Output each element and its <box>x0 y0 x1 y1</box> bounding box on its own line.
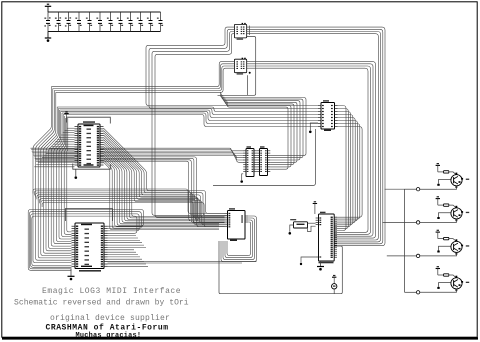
wire bottom feedback run <box>219 241 342 294</box>
IC U1 (MIDI processor DIP) <box>75 121 104 167</box>
VCC symbol at U1 <box>64 111 68 117</box>
subtitle text <box>14 299 189 308</box>
capacitor C6 <box>96 12 102 32</box>
supplier text <box>50 314 170 323</box>
power rail VCC top <box>48 11 161 13</box>
capacitor C5 <box>86 12 92 32</box>
ground at U2 <box>68 269 75 281</box>
capacitor C4 <box>75 12 81 32</box>
net stub at MIDI OUT 4 base <box>437 283 451 289</box>
ground at U5 <box>309 123 318 133</box>
capacitor C9 <box>127 12 133 32</box>
MIDI DIN connector MIDI OUT 1 <box>451 173 469 188</box>
IC U8 (latch DIP) <box>225 208 249 241</box>
wire bus U1 right fan (data lines to U7/U2) <box>104 128 225 229</box>
svg-text:Muchas gracias!: Muchas gracias! <box>76 332 142 340</box>
VCC symbol at MIDI OUT 1 <box>436 163 440 172</box>
wire feeds to MIDI outputs <box>382 189 404 256</box>
ground at crystal <box>289 225 294 235</box>
capacitor C3 <box>65 12 71 32</box>
wire bus U5 outputs descending to UART <box>334 106 362 231</box>
wire bus W2 (U4 inputs to left address bus) <box>51 62 234 93</box>
wire crossing tick at U3 output <box>248 26 250 35</box>
wire bus W3 (U3 outputs to UART) <box>247 27 385 246</box>
net stub at MIDI OUT 3 base <box>437 246 451 252</box>
capacitor C12 <box>157 12 163 32</box>
IC U7 (ACIA UART DIP) <box>316 212 337 264</box>
crystal X1 <box>290 219 315 232</box>
wire bus U2 right side lines <box>108 236 149 267</box>
svg-text:original device supplier: original device supplier <box>50 314 170 323</box>
wire U5 bottom loop to control bus <box>213 129 316 186</box>
LED indicator La1 <box>332 284 337 294</box>
wire emitter run MIDI OUT 3 <box>405 253 457 258</box>
wire bus left address/data verticals (upper, jog, nested into U2) <box>33 87 72 263</box>
IC U5 (latch DIP) <box>318 100 338 131</box>
resistor network U6A <box>243 146 257 176</box>
wire U1 left pin horizontals into bus <box>34 128 74 167</box>
capacitor C1 <box>44 12 50 32</box>
net stub at MIDI OUT 2 base <box>437 213 451 219</box>
wire emitter run MIDI OUT 4 <box>405 289 457 294</box>
ground at U1 <box>75 169 78 179</box>
wire bus W1 (U3 inputs stair to lower logic) <box>146 27 318 217</box>
net stub at MIDI OUT 1 base <box>437 180 451 186</box>
IC U2 (keyboard scan DIP) <box>72 223 108 272</box>
capacitor C7 <box>107 12 113 32</box>
buffer IC U4 <box>234 58 246 75</box>
MIDI DIN connector MIDI OUT 4 <box>451 276 469 291</box>
ground at U7 <box>317 261 324 271</box>
capacitor C8 <box>117 12 123 32</box>
capacitor C11 <box>147 12 153 32</box>
wire MIDI common bus vertical <box>404 189 406 292</box>
ground at U6A <box>240 174 243 183</box>
wire loop below U1 <box>73 164 111 170</box>
svg-text:Emagic LOG3 MIDI Interface: Emagic LOG3 MIDI Interface <box>42 287 181 296</box>
wire bus H2 (control bus to U7) <box>33 189 225 227</box>
thanks text <box>76 332 142 340</box>
resistor R4a <box>438 274 457 278</box>
MIDI DIN connector MIDI OUT 2 <box>451 206 469 221</box>
wire loop above U2 <box>66 209 113 222</box>
ground at U7 pin left <box>300 257 316 265</box>
wire self-wrap loops from U2 upper right pins to lower left pins <box>28 210 143 271</box>
wire emitter run MIDI OUT 2 <box>405 219 457 224</box>
junction at U4 output <box>249 72 251 74</box>
VCC symbol at MIDI OUT 2 <box>436 196 440 205</box>
resistor R3a <box>438 237 457 241</box>
power rail GND bottom <box>48 31 161 33</box>
svg-text:Schematic reversed and drawn b: Schematic reversed and drawn by tOri <box>14 299 189 308</box>
wire bus W4 (U4 outputs to UART) <box>247 62 376 239</box>
wire bus H3 (upper data bus to U5) <box>57 107 318 127</box>
ground <box>45 32 51 42</box>
wire U3 to U4 link <box>218 37 256 96</box>
resistor R2a <box>438 204 457 208</box>
wire VCC loop above U1 <box>67 117 111 123</box>
buffer IC U3 <box>234 23 246 40</box>
title text <box>42 287 181 296</box>
VCC symbol at indicator <box>332 275 336 284</box>
resistor R1a <box>438 171 457 175</box>
wire emitter run MIDI OUT 1 <box>405 186 457 191</box>
VCC symbol <box>45 4 51 12</box>
wire loop below U8 <box>221 216 257 262</box>
capacitor C2 <box>55 12 61 32</box>
wire bus H1 (data bus to resistor network U6) <box>31 148 244 226</box>
MIDI DIN connector MIDI OUT 3 <box>451 239 469 254</box>
VCC symbol at MIDI OUT 4 <box>436 266 440 275</box>
wire feeds to U6B upper pins from upper bus <box>221 92 306 169</box>
capacitor C10 <box>137 12 143 32</box>
wire long row-select line pair <box>108 262 257 263</box>
VCC stub at U7 pin 1 <box>313 201 317 214</box>
VCC symbol at MIDI OUT 3 <box>436 230 440 239</box>
resistor network U6B <box>257 146 271 175</box>
credit text <box>46 324 169 333</box>
